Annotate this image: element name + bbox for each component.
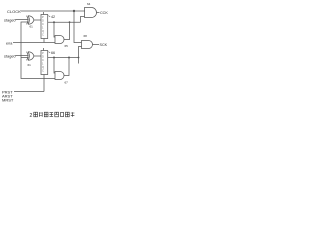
DFF 66 box: [41, 51, 48, 75]
label 42 hook: [49, 15, 51, 18]
wire Q2: [48, 57, 79, 59]
wire clock vertical down to gate 68 upper input: [74, 11, 82, 43]
wire xor2 out to dff: [34, 55, 41, 57]
svg-text:stage0: stage0: [4, 53, 17, 58]
wire PRST: [14, 91, 44, 93]
svg-text:68: 68: [84, 34, 88, 38]
label 66 hook: [49, 51, 51, 54]
and gate 67: [55, 72, 64, 80]
wire out MSB: [97, 12, 100, 14]
svg-text:D: D: [42, 19, 44, 23]
xor gate 61 (stage 1): [27, 16, 34, 25]
caption (CJK figure title drawn as vector glyphs): [30, 112, 75, 119]
svg-text:61: 61: [30, 25, 34, 29]
svg-text:65: 65: [65, 44, 69, 48]
svg-text:C: C: [42, 33, 44, 37]
svg-text:2: 2: [30, 113, 33, 119]
wire xor2 lower input: [21, 57, 29, 59]
svg-text:C: C: [42, 22, 44, 26]
node clock junction: [73, 10, 75, 12]
svg-text:67: 67: [65, 80, 69, 84]
svg-text:Q: Q: [42, 29, 44, 33]
wire Q2 down to and gate 67 upper input: [54, 58, 55, 74]
wire out SCK: [93, 44, 100, 46]
svg-text:ena: ena: [6, 41, 13, 45]
wire ena rail: [13, 42, 55, 44]
wire Q1: [48, 21, 81, 23]
DFF 42 clear stub: [43, 39, 45, 43]
wire clock to gate 64 upper input: [74, 10, 85, 12]
wire Q1 up to gate 64 lower input: [81, 17, 85, 23]
wire xor2 upper input: [16, 55, 29, 57]
DFF 66 pin letters: [42, 51, 44, 73]
svg-text:CLOCK: CLOCK: [7, 9, 21, 14]
wire xor1 out to dff: [34, 19, 41, 21]
svg-text:61: 61: [28, 63, 32, 67]
svg-text:stage0: stage0: [4, 17, 17, 22]
wire Q1 down to and gate 65 upper input: [54, 22, 55, 37]
node Q1 and65 junction: [69, 21, 71, 23]
and gate 65: [55, 36, 64, 44]
and gate 64 (top right): [85, 8, 97, 18]
wire CLOCK horizontal: [21, 10, 75, 12]
svg-text:64: 64: [87, 2, 91, 6]
svg-text:P: P: [42, 51, 44, 55]
svg-text:D: D: [42, 55, 44, 59]
DFF 66 clear stub: [43, 75, 45, 92]
svg-text:42: 42: [51, 15, 55, 19]
svg-text:C: C: [42, 58, 44, 62]
xor gate 61 (stage 2): [27, 52, 34, 61]
wire stage0 input top: [16, 19, 29, 21]
DFF 42 preset stub: [43, 12, 45, 15]
node Q2 gate68 junction: [78, 57, 80, 59]
node Q2 junction right: [68, 57, 70, 59]
DFF 42 pin letters: [42, 15, 44, 37]
svg-text:Q: Q: [42, 65, 44, 69]
node Q1 junction: [53, 21, 55, 23]
svg-text:P: P: [42, 15, 44, 19]
svg-text:SCK: SCK: [100, 43, 108, 47]
wire and65 out up to Q1 rail: [64, 22, 70, 39]
wire Q2 up to gate 68 lower input: [79, 47, 82, 64]
svg-text:1: 1: [42, 26, 44, 30]
DFF 42 box: [41, 15, 48, 39]
svg-text:MRST: MRST: [2, 97, 14, 102]
and gate 68 (right): [82, 41, 93, 49]
svg-text:CCK: CCK: [100, 11, 108, 15]
wire feedback left vertical: [21, 22, 55, 79]
node Q2 junction left: [53, 57, 55, 59]
DFF 66 preset stub: [43, 48, 45, 51]
wire and67 out up to Q2 rail: [64, 58, 69, 76]
svg-text:1: 1: [42, 62, 44, 66]
svg-text:66: 66: [51, 51, 55, 55]
svg-text:C: C: [42, 69, 44, 73]
